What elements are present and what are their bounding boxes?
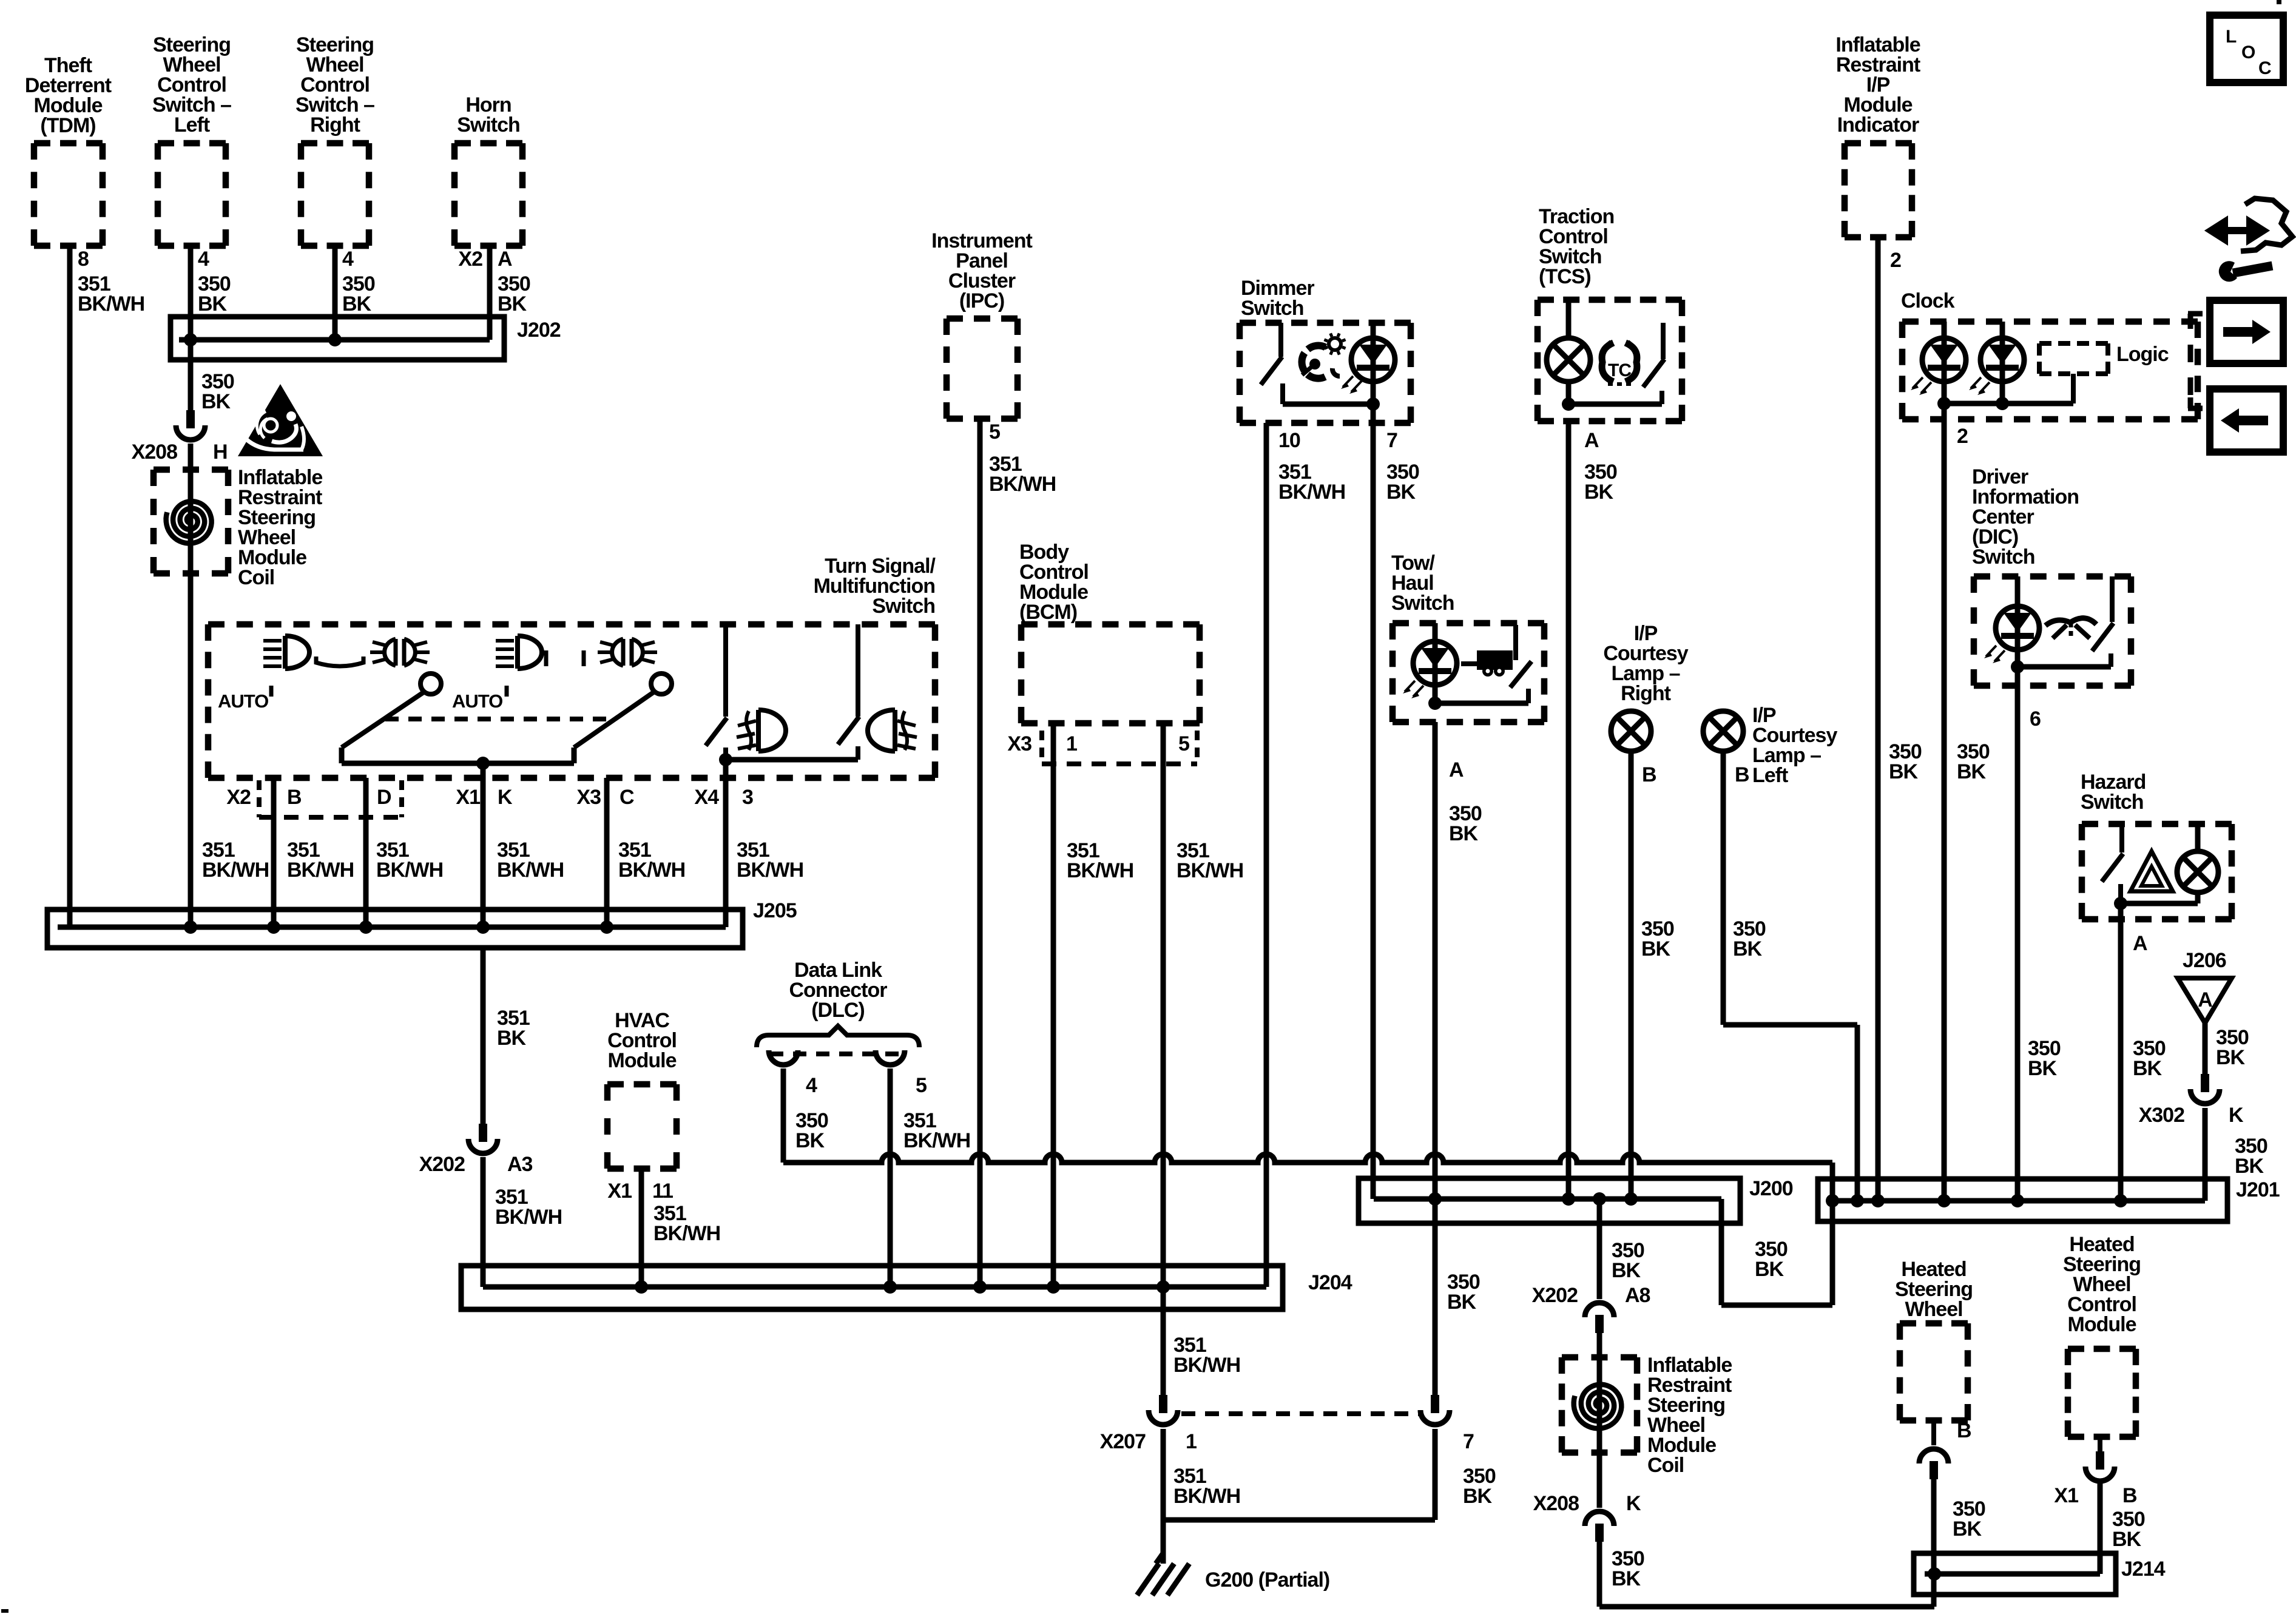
svg-text:10: 10 [1278,429,1300,452]
svg-text:Logic: Logic [2116,343,2169,366]
svg-text:J200: J200 [1749,1177,1793,1200]
svg-text:Switch: Switch [1241,297,1304,320]
svg-text:C: C [620,786,634,809]
svg-text:TC: TC [1608,360,1631,380]
svg-text:X3: X3 [576,786,601,809]
svg-text:3: 3 [742,786,753,809]
svg-text:X1: X1 [2054,1484,2078,1507]
svg-text:6: 6 [2030,707,2041,731]
svg-text:5: 5 [916,1074,927,1097]
svg-text:AUTO: AUTO [218,690,268,712]
svg-text:BK: BK [1584,481,1614,504]
svg-text:BK: BK [198,292,228,316]
svg-text:BK: BK [2112,1528,2142,1551]
svg-text:B: B [1957,1419,1971,1442]
svg-text:X4: X4 [694,786,719,809]
svg-text:BK/WH: BK/WH [1173,1485,1240,1508]
svg-text:5: 5 [989,420,1000,444]
svg-text:Switch: Switch [872,595,935,618]
svg-text:BK/WH: BK/WH [653,1222,720,1245]
svg-text:BK: BK [1612,1259,1641,1282]
svg-text:B: B [1642,763,1656,786]
svg-text:BK/WH: BK/WH [78,292,144,316]
svg-text:A: A [2133,932,2147,955]
svg-text:BK: BK [795,1129,825,1152]
svg-text:K: K [498,786,513,809]
svg-text:A: A [2198,988,2212,1011]
svg-text:Switch: Switch [2081,791,2144,814]
svg-text:O: O [2241,42,2255,62]
svg-text:J205: J205 [753,899,797,922]
svg-text:X2: X2 [458,248,482,271]
svg-text:BK/WH: BK/WH [737,859,803,882]
svg-text:BK/WH: BK/WH [202,859,269,882]
svg-text:Indicator: Indicator [1837,113,1919,137]
svg-text:11: 11 [652,1180,673,1203]
svg-text:1: 1 [1186,1430,1197,1453]
svg-text:2: 2 [1957,425,1968,448]
svg-text:X3: X3 [1007,732,1032,755]
svg-text:BK: BK [1612,1567,1641,1590]
svg-text:BK: BK [1733,937,1763,960]
svg-text:G200 (Partial): G200 (Partial) [1205,1568,1329,1592]
svg-text:4: 4 [198,248,209,271]
svg-text:BK/WH: BK/WH [989,473,1056,496]
svg-text:2: 2 [1890,249,1901,272]
svg-text:7: 7 [1463,1430,1474,1453]
svg-text:Right: Right [1621,682,1671,705]
svg-text:Clock: Clock [1901,289,1955,312]
svg-text:8: 8 [78,248,89,271]
svg-text:X2: X2 [226,786,251,809]
svg-text:BK: BK [2028,1057,2058,1080]
svg-text:X1: X1 [607,1180,632,1203]
svg-text:C: C [2258,58,2271,78]
svg-text:BK/WH: BK/WH [495,1206,562,1229]
svg-text:BK: BK [2216,1046,2246,1069]
svg-text:(IPC): (IPC) [959,289,1004,312]
svg-text:(TDM): (TDM) [40,114,95,137]
svg-text:BK: BK [1755,1258,1784,1281]
svg-text:(BCM): (BCM) [1019,601,1077,624]
svg-text:BK: BK [1449,822,1479,845]
svg-text:X302: X302 [2139,1104,2184,1127]
svg-text:A: A [1584,429,1599,452]
svg-text:X207: X207 [1100,1430,1146,1453]
svg-text:4: 4 [806,1074,817,1097]
svg-text:BK: BK [2133,1057,2163,1080]
svg-text:B: B [1735,763,1749,786]
svg-text:BK: BK [1386,481,1416,504]
svg-text:4: 4 [342,248,354,271]
svg-text:Left: Left [174,113,210,137]
svg-text:BK: BK [1889,760,1919,783]
svg-text:A8: A8 [1625,1284,1650,1307]
svg-text:Switch: Switch [1972,545,2035,569]
svg-text:BK/WH: BK/WH [497,859,564,882]
svg-text:BK: BK [201,390,231,413]
svg-text:BK/WH: BK/WH [618,859,685,882]
svg-text:J204: J204 [1308,1271,1352,1294]
svg-text:A: A [498,248,512,271]
svg-text:BK: BK [1463,1485,1493,1508]
svg-text:X202: X202 [419,1153,465,1176]
svg-text:BK: BK [497,1027,527,1050]
svg-text:A3: A3 [507,1153,533,1176]
svg-text:D: D [377,786,391,809]
svg-text:(TCS): (TCS) [1539,265,1591,288]
svg-text:X202: X202 [1532,1284,1578,1307]
svg-text:(DLC): (DLC) [811,999,865,1022]
svg-text:Module: Module [608,1049,677,1072]
svg-text:J202: J202 [517,319,561,342]
svg-text:BK/WH: BK/WH [1177,859,1243,882]
svg-text:J214: J214 [2121,1558,2166,1581]
svg-text:Right: Right [310,113,360,137]
svg-text:BK: BK [2235,1155,2264,1178]
svg-text:Coil: Coil [1647,1454,1684,1477]
svg-text:AUTO: AUTO [452,690,502,712]
svg-text:BK: BK [1957,760,1987,783]
svg-text:K: K [1626,1492,1641,1515]
svg-text:BK/WH: BK/WH [1067,859,1133,882]
svg-text:Left: Left [1752,764,1788,787]
svg-text:B: B [287,786,302,809]
svg-text:BK/WH: BK/WH [1173,1354,1240,1377]
svg-text:BK/WH: BK/WH [376,859,443,882]
svg-text:J201: J201 [2236,1178,2280,1201]
svg-text:L: L [2226,27,2237,47]
svg-text:1: 1 [1066,732,1077,755]
svg-text:Module: Module [2068,1313,2136,1336]
svg-text:B: B [2122,1484,2137,1507]
svg-text:BK: BK [1953,1517,1982,1541]
svg-text:BK: BK [342,292,372,316]
svg-text:A: A [1449,758,1464,781]
svg-text:Switch: Switch [1391,592,1454,615]
svg-text:BK/WH: BK/WH [287,859,354,882]
svg-text:X208: X208 [1533,1492,1579,1515]
svg-text:X208: X208 [132,441,177,464]
svg-text:BK/WH: BK/WH [903,1129,970,1152]
svg-text:BK/WH: BK/WH [1278,481,1345,504]
svg-text:Coil: Coil [238,566,274,589]
svg-text:BK: BK [498,292,527,316]
svg-text:7: 7 [1386,429,1397,452]
svg-text:Switch: Switch [457,113,520,137]
svg-text:BK: BK [1447,1291,1477,1314]
svg-text:5: 5 [1178,732,1189,755]
svg-text:X1: X1 [456,786,480,809]
svg-text:H: H [213,441,228,464]
svg-text:J206: J206 [2183,949,2226,972]
svg-text:K: K [2229,1104,2244,1127]
svg-text:Wheel: Wheel [1905,1298,1962,1321]
svg-text:BK: BK [1641,937,1671,960]
